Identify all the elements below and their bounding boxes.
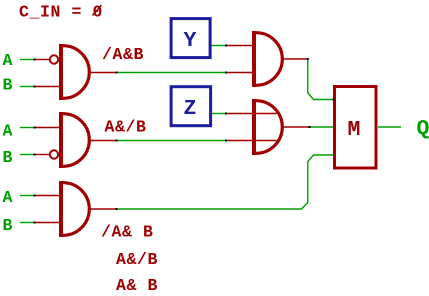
- svg-text:C_IN = 0: C_IN = 0: [19, 3, 103, 22]
- svg-text:Q: Q: [417, 117, 429, 141]
- svg-text:A&/B: A&/B: [116, 250, 158, 269]
- svg-text:Z: Z: [184, 97, 197, 121]
- svg-text:/A&B: /A&B: [102, 45, 144, 64]
- svg-text:B: B: [3, 148, 14, 167]
- svg-text:A: A: [3, 51, 14, 70]
- svg-text:A: A: [3, 122, 14, 141]
- svg-text:M: M: [348, 118, 361, 142]
- svg-text:A: A: [3, 188, 14, 207]
- svg-text:A& B: A& B: [116, 276, 158, 295]
- svg-text:Y: Y: [184, 29, 197, 53]
- svg-text:B: B: [3, 216, 14, 235]
- svg-text:A&/B: A&/B: [105, 118, 147, 137]
- svg-text:B: B: [3, 76, 14, 95]
- svg-text:/A& B: /A& B: [101, 223, 154, 242]
